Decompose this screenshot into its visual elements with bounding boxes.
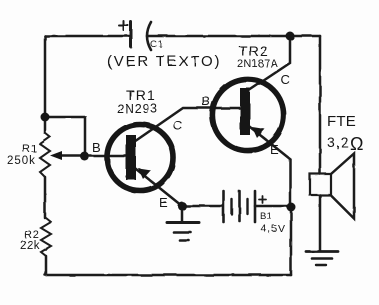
svg-text:TR2: TR2: [239, 43, 269, 59]
svg-text:C: C: [173, 118, 182, 133]
svg-text:B: B: [92, 140, 101, 155]
svg-text:4,5V: 4,5V: [261, 223, 286, 235]
svg-text:3,2: 3,2: [327, 134, 349, 150]
svg-text:2N293: 2N293: [117, 102, 158, 116]
svg-text:B1: B1: [260, 211, 272, 222]
svg-text:250k: 250k: [7, 155, 36, 167]
svg-text:C1: C1: [150, 39, 164, 50]
svg-text:22k: 22k: [20, 240, 40, 252]
svg-text:FTE: FTE: [327, 113, 356, 130]
svg-text:E: E: [270, 142, 279, 157]
svg-text:TR1: TR1: [126, 87, 156, 103]
svg-text:R1: R1: [22, 143, 38, 155]
svg-text:B: B: [202, 94, 211, 109]
svg-text:C: C: [281, 72, 290, 87]
svg-text:(VER TEXTO): (VER TEXTO): [107, 53, 221, 70]
svg-text:E: E: [159, 195, 168, 210]
svg-text:2N187A: 2N187A: [237, 58, 278, 70]
svg-text:Ω: Ω: [350, 134, 363, 154]
